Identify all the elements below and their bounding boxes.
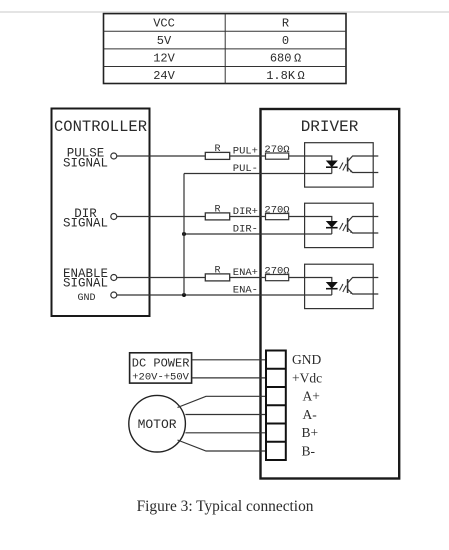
label PUL+ <box>233 146 258 158</box>
page top rule <box>0 11 449 13</box>
wire ENA+ from controller to R <box>117 277 206 279</box>
label DIR SIGNAL <box>63 207 108 231</box>
wire 270 ohm to LED anode (dir) <box>289 217 332 222</box>
light arrows (pulse) <box>340 163 347 171</box>
pin label B- <box>302 444 316 459</box>
table frame <box>104 14 347 84</box>
label ENABLE SIGNAL <box>63 267 108 291</box>
svg-text:Figure 3: Typical connection: Figure 3: Typical connection <box>137 498 314 515</box>
table cell 1.8K ohm <box>266 69 305 83</box>
label 270 ohm (ena) <box>264 266 289 278</box>
label ENA- <box>233 285 258 297</box>
svg-text:DC POWER: DC POWER <box>132 357 190 371</box>
label PULSE SIGNAL <box>63 147 108 171</box>
svg-text:SIGNAL: SIGNAL <box>63 277 108 291</box>
driver box <box>261 109 400 479</box>
junction dot GND / bus <box>182 293 186 297</box>
pin label B+ <box>302 425 319 440</box>
svg-text:B-: B- <box>302 444 316 459</box>
svg-text:R: R <box>214 205 220 216</box>
wire motor to A+ terminal <box>178 396 267 407</box>
phototransistor Q2 (dir) <box>348 217 379 234</box>
svg-text:PUL-: PUL- <box>233 163 258 175</box>
resistor R (ena) <box>205 274 229 281</box>
resistor 270 ohm (ena) <box>266 275 289 281</box>
svg-text:MOTOR: MOTOR <box>138 417 177 432</box>
svg-text:1.8KΩ: 1.8KΩ <box>266 69 305 83</box>
label 270 ohm (dir) <box>264 205 289 217</box>
table header VCC <box>153 17 175 31</box>
svg-text:B+: B+ <box>302 425 319 440</box>
svg-text:R: R <box>282 17 289 31</box>
pin label A+ <box>303 389 320 404</box>
svg-text:R: R <box>214 144 220 155</box>
wire DC power to GND terminal <box>192 359 266 361</box>
svg-text:12V: 12V <box>153 52 175 66</box>
table cell 24V <box>153 69 175 83</box>
label PUL- <box>233 163 258 175</box>
table cell 5V <box>157 34 172 48</box>
wire motor to B- terminal <box>178 440 267 451</box>
wire DIR+ from R into driver <box>230 216 266 218</box>
LED D1 (pulse) <box>326 161 338 174</box>
dc power box <box>130 353 192 383</box>
terminal circle PULSE <box>111 153 117 159</box>
wire GND / ENA- rail <box>117 294 332 296</box>
label 270 ohm (pulse) <box>264 144 289 156</box>
svg-text:R: R <box>214 266 220 277</box>
svg-text:VCC: VCC <box>153 17 175 31</box>
pin label GND <box>292 352 321 367</box>
label DC POWER <box>132 357 190 371</box>
table cell 680 ohm <box>270 52 301 66</box>
figure caption <box>137 498 314 515</box>
wire PUL+ from controller to R <box>117 155 206 157</box>
terminal circle GND <box>111 292 117 298</box>
svg-text:GND: GND <box>77 293 95 304</box>
light arrows (ena) <box>340 284 347 292</box>
LED D2 (dir) <box>326 222 338 235</box>
label CONTROLLER <box>54 118 147 136</box>
wire 270 ohm to LED anode (ena) <box>289 278 332 283</box>
wire 270 ohm to LED anode (pulse) <box>289 156 332 161</box>
phototransistor Q3 (ena) <box>348 278 379 295</box>
label ENA+ <box>233 267 258 279</box>
label +20V-+50V <box>132 371 189 383</box>
table grid lines <box>104 14 347 84</box>
wire PUL- return to bus <box>184 173 332 175</box>
label DIR+ <box>233 206 258 218</box>
svg-text:ENA-: ENA- <box>233 285 258 297</box>
motor M1 circle <box>129 395 186 452</box>
wire DIR+ from controller to R <box>117 216 206 218</box>
svg-text:+Vdc: +Vdc <box>292 370 322 385</box>
svg-text:SIGNAL: SIGNAL <box>63 156 108 170</box>
svg-text:PUL+: PUL+ <box>233 146 258 158</box>
pin label +Vdc <box>292 370 322 385</box>
resistor R (dir) <box>205 213 229 220</box>
table cell 0 <box>282 34 289 48</box>
svg-text:0: 0 <box>282 34 289 48</box>
svg-text:ENA+: ENA+ <box>233 267 258 279</box>
terminal circle ENABLE <box>111 275 117 281</box>
resistor 270 ohm (dir) <box>266 214 289 220</box>
label DIR- <box>233 224 258 236</box>
label R (pulse) <box>214 144 220 155</box>
svg-text:SIGNAL: SIGNAL <box>63 217 108 231</box>
wire motor to A- terminal <box>185 414 266 416</box>
svg-text:DRIVER: DRIVER <box>301 118 359 136</box>
wire DIR- return to bus <box>184 233 332 235</box>
terminal circle DIR <box>111 214 117 220</box>
LED D3 (ena) <box>326 283 338 296</box>
svg-text:GND: GND <box>292 352 321 367</box>
svg-text:CONTROLLER: CONTROLLER <box>54 118 147 136</box>
optocoupler U2 box (dir) <box>305 203 374 247</box>
phototransistor Q1 (pulse) <box>348 156 379 173</box>
label GND <box>77 293 95 304</box>
svg-text:270Ω: 270Ω <box>264 205 289 217</box>
resistor 270 ohm (pulse) <box>266 153 289 159</box>
label R (dir) <box>214 205 220 216</box>
junction dot DIR- / bus <box>182 232 186 236</box>
light arrows (dir) <box>340 223 347 231</box>
table header R <box>282 17 289 31</box>
label DRIVER <box>301 118 359 136</box>
svg-text:DIR+: DIR+ <box>233 206 258 218</box>
terminal strip <box>266 351 286 461</box>
svg-text:A-: A- <box>303 407 318 422</box>
table cell 12V <box>153 52 175 66</box>
svg-text:270Ω: 270Ω <box>264 266 289 278</box>
svg-text:5V: 5V <box>157 34 172 48</box>
label R (ena) <box>214 266 220 277</box>
wire DC power to +Vdc terminal <box>192 377 266 379</box>
wire motor to B+ terminal <box>185 432 266 434</box>
svg-text:A+: A+ <box>303 389 320 404</box>
optocoupler U1 box (pulse) <box>305 143 374 187</box>
svg-text:24V: 24V <box>153 69 175 83</box>
optocoupler U3 box (ena) <box>305 264 374 308</box>
wire PUL+ from R into driver <box>230 155 266 157</box>
pin label A- <box>303 407 318 422</box>
controller box <box>52 109 150 317</box>
svg-text:+20V-+50V: +20V-+50V <box>132 371 189 383</box>
svg-text:680Ω: 680Ω <box>270 52 301 66</box>
svg-text:270Ω: 270Ω <box>264 144 289 156</box>
bus wire (common return) <box>183 174 185 296</box>
resistor R (pulse) <box>205 152 229 159</box>
svg-text:DIR-: DIR- <box>233 224 258 236</box>
label MOTOR <box>138 417 177 432</box>
wire ENA+ from R into driver <box>230 277 266 279</box>
